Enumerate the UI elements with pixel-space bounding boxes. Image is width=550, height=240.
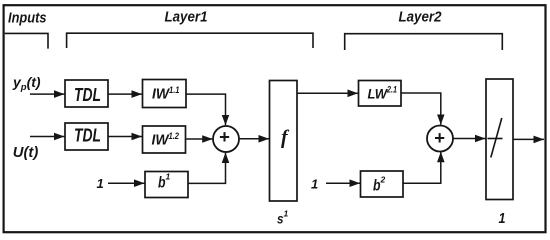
svg-text:Layer2: Layer2 [399, 9, 443, 26]
bracket Layer2 [345, 34, 503, 50]
block b2 [361, 171, 404, 197]
svg-text:1: 1 [311, 176, 318, 191]
wire 1 to b1 [108, 182, 145, 184]
svg-text:TDL: TDL [74, 126, 101, 146]
wire IW1.1 to sum S1 [186, 94, 226, 125]
svg-text:Inputs: Inputs [8, 10, 47, 27]
wire TDL2 to IW1.2 [108, 136, 142, 138]
wire f to LW2.1 [297, 92, 358, 94]
block IW1.2 [143, 126, 186, 153]
svg-text:+: + [434, 127, 445, 148]
linear transfer function block [486, 79, 513, 200]
transfer function block f [270, 81, 298, 202]
svg-text:U(t): U(t) [13, 144, 39, 161]
svg-text:f: f [281, 126, 290, 148]
block TDL row1 [65, 80, 108, 107]
svg-text:1: 1 [499, 210, 506, 227]
wire yp(t) to TDL1 [30, 93, 65, 95]
block TDL row2 [65, 123, 108, 150]
svg-text:b2: b2 [373, 175, 386, 195]
wire LW2.1 to sum S2 [401, 93, 441, 125]
wire S2 to linear block [453, 138, 486, 140]
svg-text:+: + [219, 126, 230, 147]
svg-text:b1: b1 [158, 172, 171, 192]
block IW1.1 [143, 80, 187, 108]
summing junction S1 [213, 126, 239, 152]
svg-text:yp(t): yp(t) [12, 74, 41, 93]
wire U(t) to TDL2 [30, 136, 65, 138]
svg-text:Layer1: Layer1 [165, 9, 208, 26]
wire TDL1 to IW1.1 [108, 93, 142, 95]
wire b1 to sum S1 [188, 153, 226, 184]
block b1 [145, 172, 188, 198]
svg-text:1: 1 [97, 176, 104, 191]
bracket Inputs [5, 33, 48, 48]
svg-text:TDL: TDL [74, 85, 101, 105]
svg-text:s1: s1 [277, 209, 289, 227]
wire IW1.2 to sum S1 [186, 138, 213, 140]
svg-text:LW2.1: LW2.1 [368, 85, 398, 102]
block LW2.1 [359, 81, 402, 107]
svg-text:IW1.2: IW1.2 [152, 131, 180, 148]
output wire [513, 138, 544, 140]
wire S1 to f [239, 138, 269, 140]
wire 1 to b2 [326, 182, 360, 184]
wire b2 to sum S2 [403, 152, 441, 183]
svg-text:IW1.1: IW1.1 [152, 85, 180, 102]
summing junction S2 [427, 126, 453, 152]
bracket Layer1 [67, 33, 313, 48]
